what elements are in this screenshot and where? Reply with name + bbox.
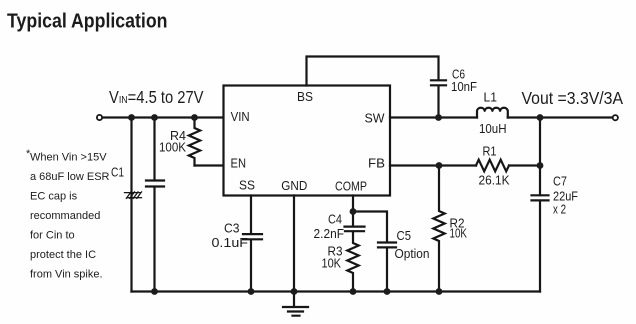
capacitor C1 (hatched electrolytic mark)	[125, 192, 142, 199]
wire C5 branch	[353, 212, 387, 243]
svg-text:SW: SW	[365, 111, 386, 126]
capacitor C6 plates	[431, 80, 446, 85]
svg-text:26.1K: 26.1K	[479, 174, 511, 188]
svg-text:VIN: VIN	[231, 109, 250, 124]
wire C5 to rail	[386, 248, 388, 292]
svg-text:SS: SS	[239, 178, 255, 193]
svg-text:10K: 10K	[450, 227, 468, 241]
capacitor C7 plates	[532, 195, 549, 200]
ground	[283, 307, 308, 316]
node FB-C7	[537, 162, 544, 169]
node Vout	[537, 114, 544, 121]
wire Cin branch vertical (upper)	[153, 118, 155, 181]
IC U1 regulator body	[224, 86, 391, 196]
wire Vout vertical to C7	[539, 118, 541, 196]
wire BS loop	[307, 57, 439, 86]
wire C7 to rail	[539, 201, 541, 292]
inductor L1	[477, 108, 508, 118]
svg-text:Typical Application: Typical Application	[7, 11, 168, 33]
svg-text:10nF: 10nF	[451, 80, 477, 94]
svg-text:22uF: 22uF	[553, 190, 578, 204]
wire C6 to SW	[437, 86, 439, 118]
node rail-R2	[436, 288, 443, 295]
wire Cin branch vertical (lower)	[153, 187, 155, 292]
svg-text:Vout =3.3V/3A: Vout =3.3V/3A	[522, 88, 624, 108]
resistor R2	[433, 166, 444, 292]
wire C1 branch vertical	[130, 118, 132, 292]
svg-text:R1: R1	[483, 145, 497, 159]
node COMP-C5	[350, 208, 357, 215]
node rail-Cin	[151, 288, 158, 295]
wire COMP branch	[352, 196, 354, 227]
svg-text:Option: Option	[395, 247, 430, 261]
svg-text:10K: 10K	[322, 257, 342, 271]
svg-text:L1: L1	[484, 91, 498, 105]
svg-text:x 2: x 2	[553, 203, 566, 217]
svg-text:COMP: COMP	[335, 179, 367, 194]
wire SW output	[390, 116, 477, 118]
wire C3 to rail	[250, 240, 252, 292]
svg-text:C7: C7	[553, 175, 567, 189]
capacitor C3 plates	[243, 234, 262, 239]
svg-text:C5: C5	[397, 229, 412, 243]
svg-text:10uH: 10uH	[479, 122, 507, 136]
capacitor Cin plates	[146, 181, 164, 187]
svg-text:FB: FB	[368, 156, 385, 171]
resistor R3	[347, 232, 358, 292]
svg-text:BS: BS	[297, 89, 313, 104]
svg-text:When Vin >15V: When Vin >15V	[30, 152, 107, 164]
node VIN-Cin	[151, 114, 158, 121]
svg-text:from Vin spike.: from Vin spike.	[30, 269, 103, 281]
wire R1 to C7 node	[509, 164, 540, 166]
wire FB	[390, 164, 476, 166]
svg-text:for Cin to: for Cin to	[30, 230, 75, 242]
svg-text:recommanded: recommanded	[30, 210, 100, 222]
svg-text:C3: C3	[224, 222, 240, 236]
node rail-C5	[384, 288, 391, 295]
output terminal	[613, 115, 618, 120]
node rail-SS	[248, 288, 255, 295]
wire VIN input	[103, 116, 224, 118]
svg-text:EN: EN	[231, 156, 247, 171]
svg-text:C1: C1	[111, 166, 124, 180]
node rail-R3	[350, 288, 357, 295]
node rail-GND	[291, 288, 298, 295]
wire EN	[195, 164, 224, 166]
svg-text:protect the IC: protect the IC	[30, 249, 96, 261]
svg-text:C4: C4	[328, 213, 342, 227]
svg-text:a 68uF low ESR: a 68uF low ESR	[30, 171, 110, 183]
capacitor C4 plates	[345, 227, 365, 232]
svg-text:0.1uF: 0.1uF	[212, 236, 249, 250]
capacitor C5 plates	[378, 243, 396, 248]
node SW-C6	[435, 114, 442, 121]
svg-text:2.2nF: 2.2nF	[314, 227, 345, 241]
wire ground rail	[132, 290, 541, 292]
wire L1 to output	[508, 116, 613, 118]
resistor R1	[476, 160, 509, 172]
node VIN-C1	[128, 114, 135, 121]
svg-text:EC cap is: EC cap is	[30, 191, 78, 203]
node FB-R2	[436, 162, 443, 169]
svg-text:100K: 100K	[159, 141, 187, 155]
wire SS branch	[250, 196, 252, 234]
wire GND branch	[293, 196, 295, 307]
input terminal	[97, 115, 102, 120]
svg-text:GND: GND	[281, 178, 307, 193]
node VIN-R4	[191, 114, 198, 121]
resistor R4	[189, 118, 200, 166]
